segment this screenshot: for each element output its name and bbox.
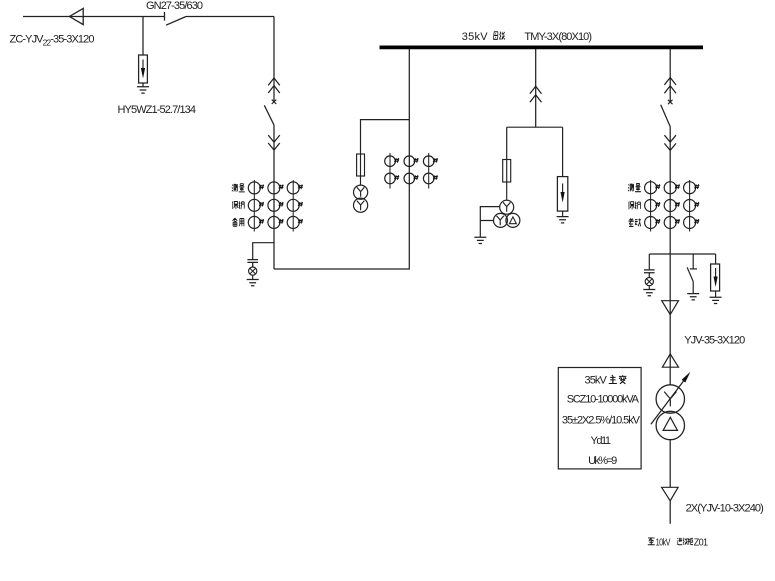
wire left feeder vertical lower [273, 125, 275, 269]
wire PT feeder T-split [507, 127, 563, 176]
wire PT tap on riser [361, 120, 410, 154]
ground below earthing switch [687, 294, 699, 300]
transformer T1 35kV main [656, 385, 684, 440]
wire right feeder vertical lower [669, 126, 671, 300]
bus bar 35kV [380, 46, 704, 50]
surge arrester HY5WZ1-52.7/134 [139, 55, 148, 87]
surge arrester (35kV bus) [557, 177, 567, 217]
wire junction run below right CTs [649, 253, 715, 255]
svg-text:HY5WZ1-52.7/134: HY5WZ1-52.7/134 [118, 104, 196, 116]
current transformers left feeder phase B column [268, 182, 284, 229]
label CT row measurement 测量 [232, 184, 245, 192]
current transformers right feeder phase C column [684, 180, 700, 232]
label CT row differential 差动 [629, 218, 641, 226]
current transformers left feeder phase A column [248, 180, 264, 232]
svg-text:TMY-3X(80X10): TMY-3X(80X10) [524, 31, 591, 43]
wire cable YJV-35-3X120 [669, 301, 671, 385]
label CT row measurement 测量 (right) [628, 184, 641, 192]
ground below indicator (right) [643, 290, 655, 296]
current transformers riser phase A column [385, 153, 400, 189]
svg-text:Uk%=9: Uk%=9 [588, 455, 617, 467]
wire incoming 35kV line [23, 16, 165, 18]
ground below bus PT [474, 237, 486, 243]
ground below indicator (left) [247, 280, 259, 286]
capacitor (right live-line indicator) [644, 270, 655, 278]
label transformer title 35kV主变 [585, 375, 627, 387]
ground below arrester [137, 87, 149, 93]
cable head (feeder side, down) [662, 301, 679, 315]
voltage transformer 3-winding (bus PT) [494, 200, 520, 227]
wire arrester branch (bus PT feeder) [562, 176, 564, 178]
fuse (riser PT) [357, 154, 365, 185]
ground below transformer-side arrester [710, 297, 722, 303]
label CT row protection 保护 (right) [629, 201, 641, 209]
wire PT feeder drop from bus [535, 49, 537, 127]
svg-text:2X(YJV-10-3X240): 2X(YJV-10-3X240) [686, 502, 764, 514]
svg-text:35±2X2.5%/10.5kV: 35±2X2.5%/10.5kV [562, 414, 641, 426]
current transformers left feeder phase C column [287, 180, 303, 232]
svg-text:SCZ10-10000kVA: SCZ10-10000kVA [567, 394, 640, 406]
current transformers right feeder phase B column [664, 182, 680, 229]
wire drop to indicator (right) [648, 254, 650, 269]
wire surge arrester tap [142, 17, 144, 56]
disconnector GN27 blade [166, 17, 186, 26]
capacitor (left live-line indicator) [247, 260, 258, 267]
wire right feeder vertical upper [669, 49, 671, 101]
indicator lamp (left) [249, 267, 257, 279]
label bus 35kV 母线 [462, 31, 505, 43]
label CT row spare 备用 [232, 218, 243, 226]
label destination 至10kV 进线柜Z01 [648, 536, 708, 548]
current transformers riser phase B column [404, 156, 419, 184]
surge arrester (transformer side) [711, 264, 720, 297]
svg-text:GN27-35/630: GN27-35/630 [146, 0, 203, 12]
svg-text:35kV: 35kV [462, 31, 488, 43]
transformer data box [558, 368, 641, 469]
wire bottom run from left feeder to bus riser [274, 49, 409, 269]
cable head (transformer side, up) [662, 354, 678, 367]
svg-text:Z01: Z01 [694, 537, 708, 549]
wire from disconnector to left feeder drop [186, 16, 274, 18]
earthing switch [687, 254, 697, 293]
wire outgoing 10kV cable [669, 501, 671, 524]
disconnector GN27 fixed contact [164, 12, 166, 21]
wire transformer secondary [669, 440, 671, 488]
ground below bus arrester [557, 217, 569, 223]
wire PT neutral earthing taps [480, 207, 500, 237]
svg-text:10kV: 10kV [656, 536, 671, 547]
cable head terminal (incoming) [69, 8, 83, 24]
circuit breaker (right feeder, draw-out) [661, 78, 676, 151]
cable head (10kV side, down) [662, 487, 679, 501]
draw-out contact (PT feeder) [530, 86, 542, 102]
tap changer arrow on transformer [651, 372, 691, 425]
svg-text:35kV: 35kV [585, 375, 608, 387]
svg-text:YJV-35-3X120: YJV-35-3X120 [684, 334, 745, 346]
current transformers right feeder phase A column [645, 180, 661, 232]
fuse (bus PT) [503, 160, 511, 201]
indicator lamp (right) [645, 278, 653, 290]
svg-text:Yd11: Yd11 [591, 435, 611, 447]
svg-text:ZC-YJV22-35-3X120: ZC-YJV22-35-3X120 [10, 33, 95, 47]
circuit breaker (left feeder, draw-out) [264, 78, 280, 150]
wire left feeder vertical upper [273, 17, 275, 102]
current transformers riser phase C column [423, 153, 438, 189]
label CT row protection 保护 [232, 201, 244, 209]
voltage transformer 2-winding (riser) [354, 185, 368, 212]
wire tap to discharge indicator (left) [253, 243, 274, 259]
wire arrester branch (right feeder) [715, 254, 717, 264]
